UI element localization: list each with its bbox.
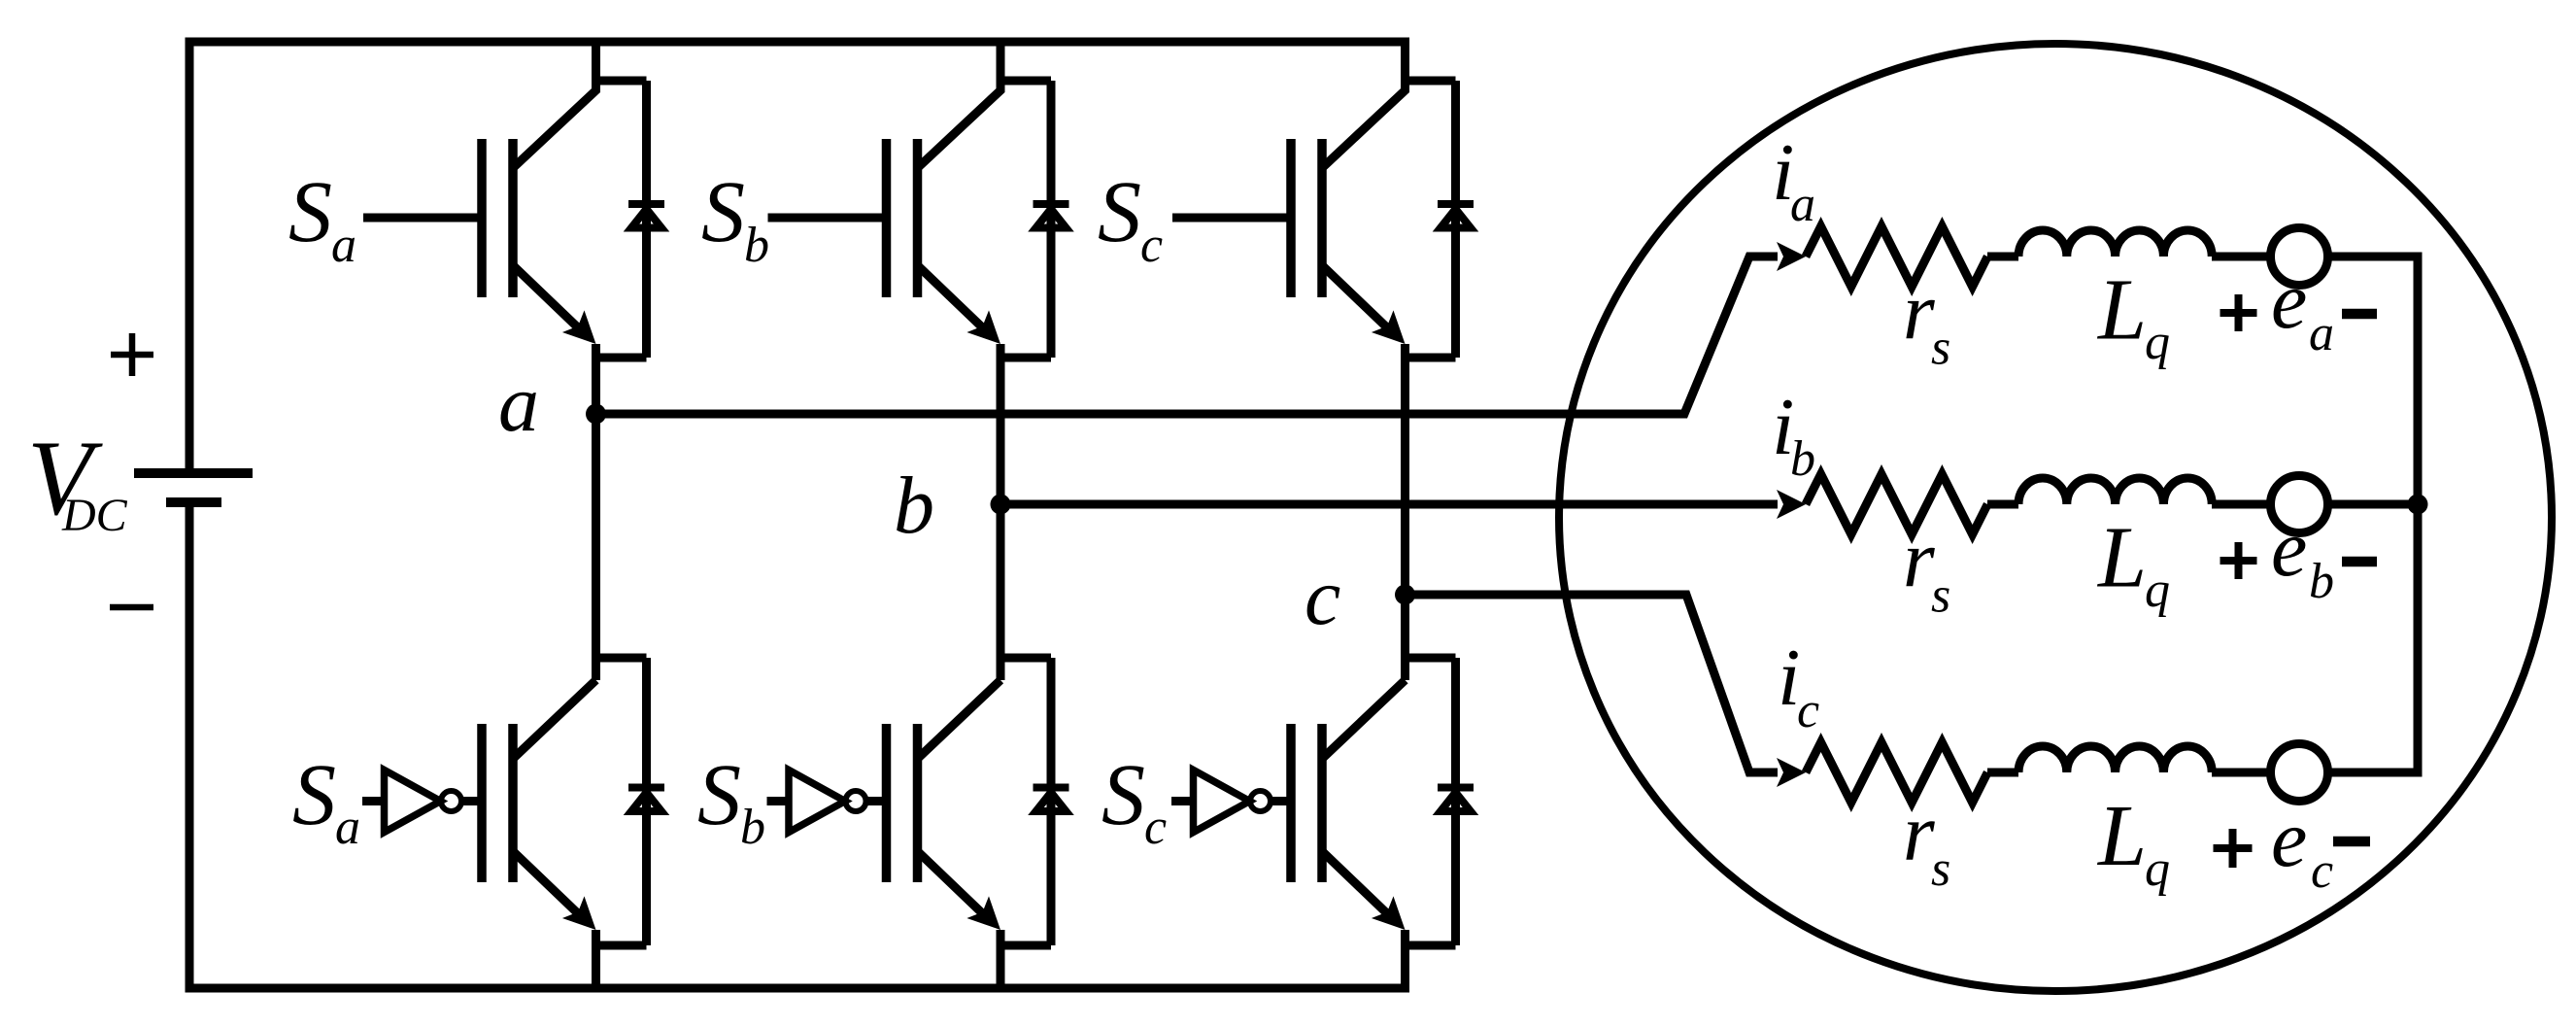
svg-text:c: c bbox=[1140, 218, 1163, 273]
svg-text:DC: DC bbox=[61, 490, 128, 541]
svg-text:a: a bbox=[2309, 306, 2334, 361]
svg-text:a: a bbox=[1790, 177, 1815, 232]
svg-text:c: c bbox=[1305, 552, 1340, 642]
svg-text:s: s bbox=[1931, 568, 1950, 624]
svg-text:S: S bbox=[701, 164, 745, 260]
svg-text:S: S bbox=[1102, 747, 1145, 843]
svg-text:b: b bbox=[894, 461, 934, 551]
svg-text:a: a bbox=[498, 359, 539, 449]
svg-text:e: e bbox=[2271, 256, 2307, 346]
svg-text:b: b bbox=[2309, 554, 2334, 609]
svg-text:L: L bbox=[2096, 510, 2147, 606]
svg-text:S: S bbox=[288, 164, 332, 260]
svg-text:e: e bbox=[2271, 503, 2307, 594]
svg-text:a: a bbox=[331, 218, 356, 273]
svg-text:S: S bbox=[292, 747, 336, 843]
svg-text:b: b bbox=[740, 800, 765, 855]
svg-text:s: s bbox=[1931, 841, 1950, 897]
svg-text:c: c bbox=[1797, 683, 1819, 738]
svg-text:q: q bbox=[2145, 841, 2170, 897]
svg-text:e: e bbox=[2271, 794, 2307, 884]
svg-text:q: q bbox=[2145, 315, 2170, 370]
svg-text:s: s bbox=[1931, 321, 1950, 376]
svg-text:L: L bbox=[2096, 788, 2147, 884]
svg-text:c: c bbox=[1144, 800, 1167, 855]
svg-text:c: c bbox=[2311, 843, 2333, 899]
svg-text:S: S bbox=[697, 747, 741, 843]
svg-text:q: q bbox=[2145, 563, 2170, 618]
svg-text:S: S bbox=[1098, 164, 1141, 260]
svg-text:b: b bbox=[1790, 431, 1815, 487]
svg-text:b: b bbox=[744, 218, 769, 273]
svg-text:a: a bbox=[335, 800, 360, 855]
svg-text:L: L bbox=[2096, 262, 2147, 359]
